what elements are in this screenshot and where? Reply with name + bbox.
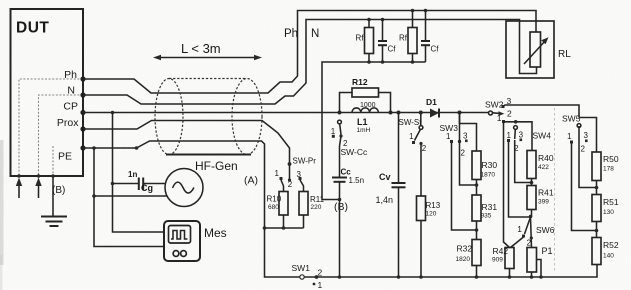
resistor R42 [492,246,514,279]
switch SW-St [399,111,427,197]
resistor Rf second [399,9,417,62]
capacitor Cg [111,170,166,193]
switch SW1 [292,263,323,290]
wire SW3 pos1 to R31 R32 junction [452,143,477,230]
wire PE down to Mes [94,148,164,247]
resistor Rf first [356,18,374,62]
wire SW3 feed to R30 [460,113,477,152]
plug pin arrow 2 [35,174,41,198]
switch SW3 [440,111,469,158]
wire N internal gray [39,95,84,176]
resistor R11 [299,180,325,228]
potentiometer P1 [527,246,553,279]
wire SW5 pos1 to R51 R52 junction [572,144,597,231]
wire CP main line [83,112,489,114]
wire SW2 pos1 down to R42 [504,122,510,248]
resistor R13 [417,196,441,279]
wire Ph to top rail and RL [83,11,536,94]
scan artifact line [554,108,556,272]
capacitor Cf first [378,18,396,62]
junction dot Cc bottom [338,275,342,279]
junction dot Cv bottom [397,275,401,279]
switch SW6 [517,215,554,248]
wire HF-Gen ground tap [92,194,167,198]
resistor R32 [456,221,482,279]
DUT box [11,9,84,176]
switch SW-Pr [275,157,317,190]
plug pin arrow 1 [16,174,22,198]
capacitor Cv [376,111,406,278]
wire SW4 pos1 to R41 bottom junction [509,141,530,217]
terminal label PE [58,145,86,162]
wire SW6 pos1 to R42 [511,237,524,248]
meter Mes [164,221,227,261]
switch SW-Cc [331,120,368,177]
scan smudge left edge [0,140,4,265]
resistor R30 [472,151,497,180]
wire PE through cable to node A and ground bus [83,141,597,277]
switch SW2 [485,96,512,123]
wire SW3 pos2 to R30 R31 junction [460,142,477,186]
wire N to second rail and RL [83,20,537,105]
wire PE internal gray [52,146,54,176]
wire Prox to SW-Pr [83,121,290,165]
cable shield cylinder [155,79,262,155]
wire SW2 pos3 rail to SW5 [503,105,579,118]
switch SW5 [562,114,589,154]
terminal label CP [63,101,85,116]
load RL [506,21,571,78]
terminal label N [67,85,85,98]
wire R10 R11 bottom rail to node A [263,226,304,230]
resistor R41 [527,179,554,218]
capacitor Cf second [421,9,439,62]
dimension arrow L < 3m [153,41,262,60]
resistor R51 [592,181,619,222]
wire Ph internal gray [19,79,83,176]
diode D1 [426,97,439,118]
wire SW5 feed to R50 [579,118,597,153]
resistor R52 [592,222,619,265]
resistor R31 [472,180,497,222]
terminal label Ph [64,69,85,82]
ground [41,174,67,226]
wire CP down to Mes [111,111,164,232]
generator HF-Gen [165,159,238,207]
switch SW4 [506,126,551,153]
wire SW5 pos2 to R50 R51 junction [579,126,597,188]
wire SW2 pos1 to R40 feed [504,120,533,151]
resistor R12 [338,77,393,115]
resistor R40 [527,151,554,179]
resistor R50 [592,152,619,181]
wire SW4 pos2 to R40 R41 junction [515,140,532,183]
capacitor Cc [332,168,364,278]
wire filter bottom rail to node B [322,60,426,201]
terminal label Prox [57,117,86,132]
inductor L1 [352,108,378,134]
resistor R10 [267,180,289,228]
